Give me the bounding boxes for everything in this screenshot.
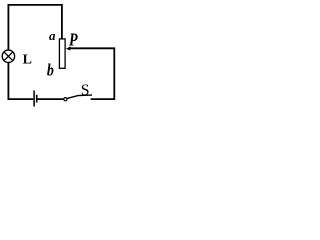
svg-text:P: P	[68, 29, 78, 49]
svg-text:b: b	[47, 61, 54, 80]
svg-text:a: a	[49, 28, 56, 43]
svg-text:S: S	[81, 82, 90, 99]
svg-text:L: L	[23, 53, 32, 68]
